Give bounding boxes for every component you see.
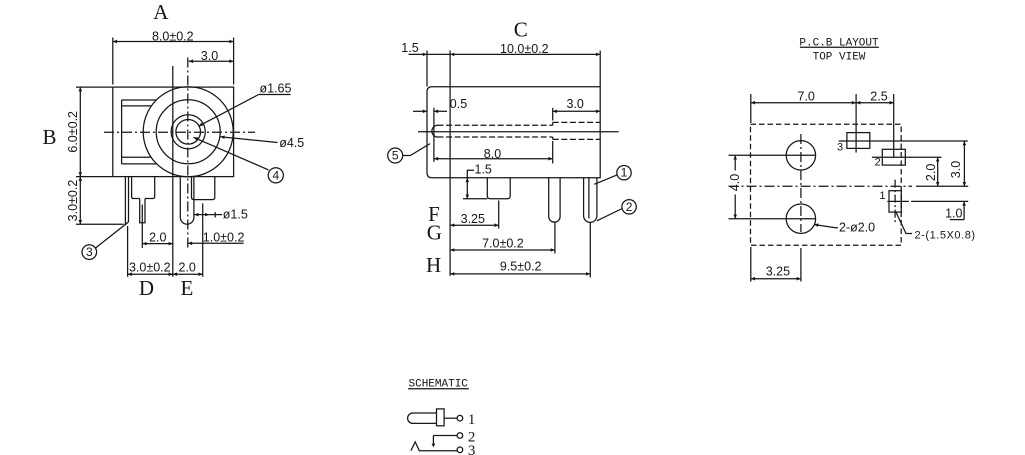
ext body right top xyxy=(599,51,601,87)
pad 1 horizontal centerline xyxy=(887,200,909,202)
ext 8.0 right xyxy=(552,141,554,164)
svg-text:C: C xyxy=(514,18,528,42)
title PCB LAYOUT xyxy=(799,38,879,50)
svg-text:2-(1.5X0.8): 2-(1.5X0.8) xyxy=(915,229,976,241)
dim 8.0 line xyxy=(434,158,553,160)
ext 7.0 right xyxy=(554,223,556,254)
hidden hole step connectors xyxy=(552,122,554,125)
dimension 3.0 text xyxy=(201,49,218,63)
pad 2 horizontal centerline xyxy=(872,156,942,158)
svg-text:2: 2 xyxy=(626,200,633,214)
svg-text:G: G xyxy=(427,221,442,245)
dim 3.0 pcb rotated text xyxy=(949,161,963,178)
svg-text:2: 2 xyxy=(875,157,881,169)
vertical centerline front xyxy=(187,58,189,248)
switch spring peak xyxy=(411,442,457,451)
svg-text:E: E xyxy=(180,276,193,300)
dim 6.0±0.2 line xyxy=(79,87,81,177)
jack tip contact rect xyxy=(437,409,445,426)
shield pin F xyxy=(487,178,510,199)
svg-text:3.25: 3.25 xyxy=(766,264,790,278)
dim 3.0±0.2 rotated text xyxy=(66,180,80,222)
left stepped pin narrow part xyxy=(140,199,145,223)
ext pcb left top xyxy=(750,94,752,123)
svg-text:4: 4 xyxy=(272,168,279,182)
view label G xyxy=(427,221,442,245)
dimension 8.0±0.2 line xyxy=(113,41,234,43)
wire to terminal 1 xyxy=(444,417,457,419)
dim 1.5 outside arrow xyxy=(409,53,428,55)
schematic title xyxy=(409,378,469,390)
side pin 1 outline xyxy=(584,178,597,223)
pad 3 label xyxy=(837,142,843,154)
bottom ext line left xyxy=(127,226,129,277)
svg-text:2.0: 2.0 xyxy=(924,164,938,181)
ext for 3.0 side xyxy=(552,108,554,121)
dim 3.25 text xyxy=(461,212,485,226)
dim 1.0 shelf xyxy=(950,219,964,221)
dim 1.0 arrow xyxy=(963,201,965,219)
svg-text:1.5: 1.5 xyxy=(401,41,418,55)
switch arm arrowhead xyxy=(432,444,436,448)
solid reference line E xyxy=(172,66,174,277)
ext 4.0 bottom xyxy=(729,218,787,220)
pin centerline left stepped xyxy=(141,205,143,249)
svg-text:TOP VIEW: TOP VIEW xyxy=(813,52,866,64)
ext line top left xyxy=(76,86,112,88)
pcb dashed outline xyxy=(751,124,902,245)
view label B xyxy=(42,125,56,149)
balloon 3 xyxy=(82,245,97,260)
svg-text:0.5: 0.5 xyxy=(450,97,467,111)
svg-text:1: 1 xyxy=(468,412,476,428)
center pin side xyxy=(549,178,560,222)
ext line body left top xyxy=(426,51,428,87)
svg-text:1.0: 1.0 xyxy=(945,207,962,221)
hidden hole lower right xyxy=(553,138,601,140)
svg-text:1: 1 xyxy=(879,190,885,202)
pin centerline right xyxy=(202,203,204,276)
svg-text:ø1.5: ø1.5 xyxy=(223,207,248,221)
ext 3.25 left xyxy=(750,247,752,282)
jack center pin pill xyxy=(408,413,437,423)
svg-text:7.0±0.2: 7.0±0.2 xyxy=(482,236,524,250)
dim 3.25 pcb line xyxy=(751,278,801,280)
ext line mid left xyxy=(76,176,112,178)
dim 3.0±0.2 vertical line xyxy=(79,177,81,225)
pad 1 xyxy=(889,191,901,212)
dim 3.0 pcb line xyxy=(963,141,965,186)
balloon 1 xyxy=(617,166,631,180)
svg-text:3.0: 3.0 xyxy=(567,97,584,111)
pad 1 label xyxy=(879,190,885,202)
ext 3.25 right xyxy=(498,201,500,229)
terminal 1 label xyxy=(468,412,476,428)
svg-text:ø4.5: ø4.5 xyxy=(279,136,304,150)
view label C xyxy=(514,18,528,42)
dim 3.0 side line xyxy=(553,110,601,112)
leader 2-dia2.0 xyxy=(814,225,838,228)
hole entry arc xyxy=(432,125,438,137)
dimension 8.0±0.2 text xyxy=(152,29,194,43)
svg-text:2.0: 2.0 xyxy=(179,260,196,274)
ext 9.5 right xyxy=(589,223,591,278)
circle middle xyxy=(171,115,205,149)
pad 3 xyxy=(847,133,870,149)
svg-text:ø1.65: ø1.65 xyxy=(260,81,292,95)
dim 2.0 pcb line xyxy=(937,157,939,186)
svg-text:B: B xyxy=(42,125,56,149)
dimension dia 1.5 line xyxy=(194,214,209,216)
dim 9.5±0.2 text xyxy=(500,259,542,273)
dia 1.5 ext tick xyxy=(214,212,216,218)
view label H xyxy=(426,253,441,277)
leader 2-(1.5X0.8) xyxy=(896,212,912,233)
terminal 1 circle xyxy=(457,415,463,421)
svg-text:3.0±0.2: 3.0±0.2 xyxy=(129,260,171,274)
wire to terminal 2 xyxy=(433,435,457,437)
center pin U front xyxy=(180,177,194,225)
bottom dim 2.0 text xyxy=(179,260,196,274)
view label F xyxy=(428,202,440,226)
dim 7.0 pcb text xyxy=(798,90,815,104)
svg-text:2.5: 2.5 xyxy=(870,90,887,104)
inner step top lines xyxy=(122,99,157,101)
pcb vertical centerline xyxy=(800,134,802,232)
view label D xyxy=(139,276,154,300)
svg-text:D: D xyxy=(139,276,154,300)
dim 1.5 text top xyxy=(401,41,418,55)
leader dia 1.65 xyxy=(259,94,291,96)
dim 2.5 pcb text xyxy=(870,90,887,104)
dim 4.0 line xyxy=(734,155,736,170)
pad 1 centerline right segment xyxy=(911,200,968,202)
dim 2.0 pcb rotated text xyxy=(924,164,938,181)
circle dia 4.5 xyxy=(156,100,220,164)
dim 6.0±0.2 rotated text xyxy=(66,111,80,153)
hole circle bottom xyxy=(786,204,815,233)
terminal 3 label xyxy=(468,443,476,455)
hole circle top xyxy=(786,141,815,170)
dim 10.0 line xyxy=(450,53,600,55)
hole front face line xyxy=(433,108,435,162)
dimension 2.0 line (pins) xyxy=(142,243,173,245)
side body outline xyxy=(427,87,600,178)
dim 1.5 pin bracket xyxy=(475,162,492,176)
dim 7.0 pcb line xyxy=(751,102,856,104)
dim 7.0 line xyxy=(450,249,555,251)
pcb main horizontal centerline xyxy=(729,185,913,187)
pad 2 xyxy=(882,149,905,165)
view label E xyxy=(180,276,193,300)
svg-text:3: 3 xyxy=(86,245,93,259)
hidden hole upper left xyxy=(438,124,553,126)
left stepped pin wide part xyxy=(132,177,155,199)
dim 3.25 pcb text xyxy=(766,264,790,278)
dim 9.5 line xyxy=(450,273,590,275)
dimension 2.0 text (pins) xyxy=(149,231,166,245)
outer circle xyxy=(143,87,233,177)
left tab pin xyxy=(125,177,128,225)
ext pin bottom F xyxy=(463,198,487,200)
bottom dim line E xyxy=(173,273,203,275)
dim 10.0±0.2 text xyxy=(500,42,549,56)
extension line left of A dim xyxy=(112,38,114,85)
hidden hole lower left xyxy=(438,136,553,138)
dia 1.5 text xyxy=(223,207,248,221)
dim 7.0±0.2 text xyxy=(482,236,524,250)
ext pad2 column vertical xyxy=(893,94,895,157)
side centerline xyxy=(418,131,619,133)
ext line bottom left xyxy=(76,223,124,225)
svg-text:3.0: 3.0 xyxy=(949,161,963,178)
svg-text:2-ø2.0: 2-ø2.0 xyxy=(839,220,875,234)
dimension 1.0±0.2 text xyxy=(203,231,245,245)
dim 3.25 line xyxy=(450,224,499,226)
ext pad3 centerline vertical xyxy=(855,94,857,153)
ext 4.0 top xyxy=(729,154,787,156)
balloon 5 xyxy=(388,148,403,163)
svg-text:A: A xyxy=(153,0,169,24)
crosshair top circle xyxy=(786,154,815,156)
pad 2 label xyxy=(875,157,881,169)
svg-text:3: 3 xyxy=(837,142,843,154)
terminal 2 label xyxy=(468,430,476,446)
svg-text:7.0: 7.0 xyxy=(798,90,815,104)
switch arm vertical xyxy=(432,436,434,445)
leader dia 4.5 xyxy=(220,137,277,143)
svg-text:3: 3 xyxy=(468,443,476,455)
hidden hole upper right xyxy=(553,121,601,123)
crosshair bottom circle xyxy=(786,218,815,220)
view label A xyxy=(153,0,169,24)
dim 8.0 text xyxy=(484,147,501,161)
dim 1.0 text xyxy=(945,207,962,221)
svg-text:1.5: 1.5 xyxy=(475,162,492,176)
svg-text:2.0: 2.0 xyxy=(149,231,166,245)
dimension 1.0±0.2 line xyxy=(188,242,244,244)
svg-text:4.0: 4.0 xyxy=(728,174,742,191)
dim 4.0 rotated text xyxy=(728,174,742,191)
pcb vertical centerline lower ext xyxy=(800,248,802,282)
svg-text:3.0±0.2: 3.0±0.2 xyxy=(66,180,80,222)
inner step vertical xyxy=(121,100,123,164)
pcb main centerline right segment xyxy=(916,185,968,187)
balloon 4 xyxy=(268,168,283,183)
dim 2.5 pcb line xyxy=(856,102,894,104)
dim 0.5 arrows xyxy=(413,110,427,112)
svg-text:6.0±0.2: 6.0±0.2 xyxy=(66,111,80,153)
right pin wide part xyxy=(192,177,215,200)
balloon 2 xyxy=(622,200,636,214)
svg-text:1.0±0.2: 1.0±0.2 xyxy=(203,231,245,245)
svg-text:H: H xyxy=(426,253,441,277)
svg-text:3.25: 3.25 xyxy=(461,212,485,226)
terminal 2 circle xyxy=(457,433,463,439)
pad 3 horizontal centerline xyxy=(839,140,968,142)
dim 0.5 text xyxy=(450,97,467,111)
reference plane line xyxy=(449,51,451,276)
inner step bottom lines xyxy=(122,156,151,158)
dim 3.0 side text xyxy=(567,97,584,111)
svg-text:9.5±0.2: 9.5±0.2 xyxy=(500,259,542,273)
pad 1 vertical centerline xyxy=(894,180,896,223)
svg-text:1: 1 xyxy=(621,166,628,180)
dimension 3.0 line xyxy=(189,60,234,62)
side pin inner line xyxy=(588,178,590,219)
extension line right of A dim xyxy=(233,38,235,85)
horizontal centerline front xyxy=(104,131,255,133)
svg-text:10.0±0.2: 10.0±0.2 xyxy=(500,42,549,56)
body rectangle front view xyxy=(113,87,234,177)
circle dia 1.65 xyxy=(176,120,201,145)
bottom dim 3.0±0.2 text xyxy=(129,260,171,274)
bottom dim line D xyxy=(128,273,173,275)
svg-text:5: 5 xyxy=(392,149,399,163)
terminal 3 circle xyxy=(457,447,463,453)
